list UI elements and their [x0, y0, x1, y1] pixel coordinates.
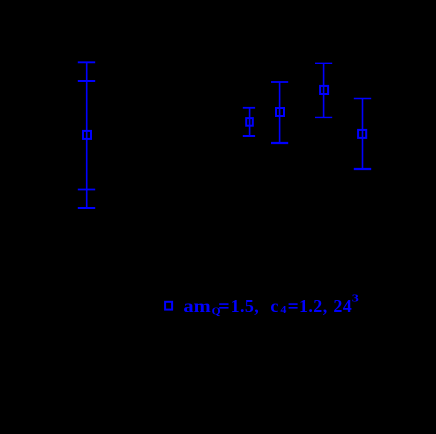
data point 4 square marker — [320, 86, 328, 94]
legend square marker — [165, 302, 172, 310]
svg-text:c: c — [270, 296, 278, 316]
legend text — [183, 292, 358, 317]
svg-text:1.5,: 1.5, — [231, 296, 260, 316]
data point 3 error bars — [271, 82, 288, 143]
data point 2 square marker — [246, 118, 253, 126]
data point 2 error bars — [243, 108, 255, 136]
svg-text:24: 24 — [333, 296, 352, 316]
svg-text:3: 3 — [352, 292, 359, 304]
data point 5 error bars — [354, 99, 371, 170]
svg-text:4: 4 — [280, 304, 286, 315]
svg-text:am: am — [183, 297, 210, 317]
svg-text:1.2,: 1.2, — [299, 296, 328, 316]
data point 1 square marker — [83, 131, 91, 139]
data point 5 square marker — [358, 130, 366, 138]
data point 1 error bars — [78, 62, 95, 208]
data point 4 error bars — [315, 63, 332, 117]
data point 3 square marker — [276, 108, 284, 116]
